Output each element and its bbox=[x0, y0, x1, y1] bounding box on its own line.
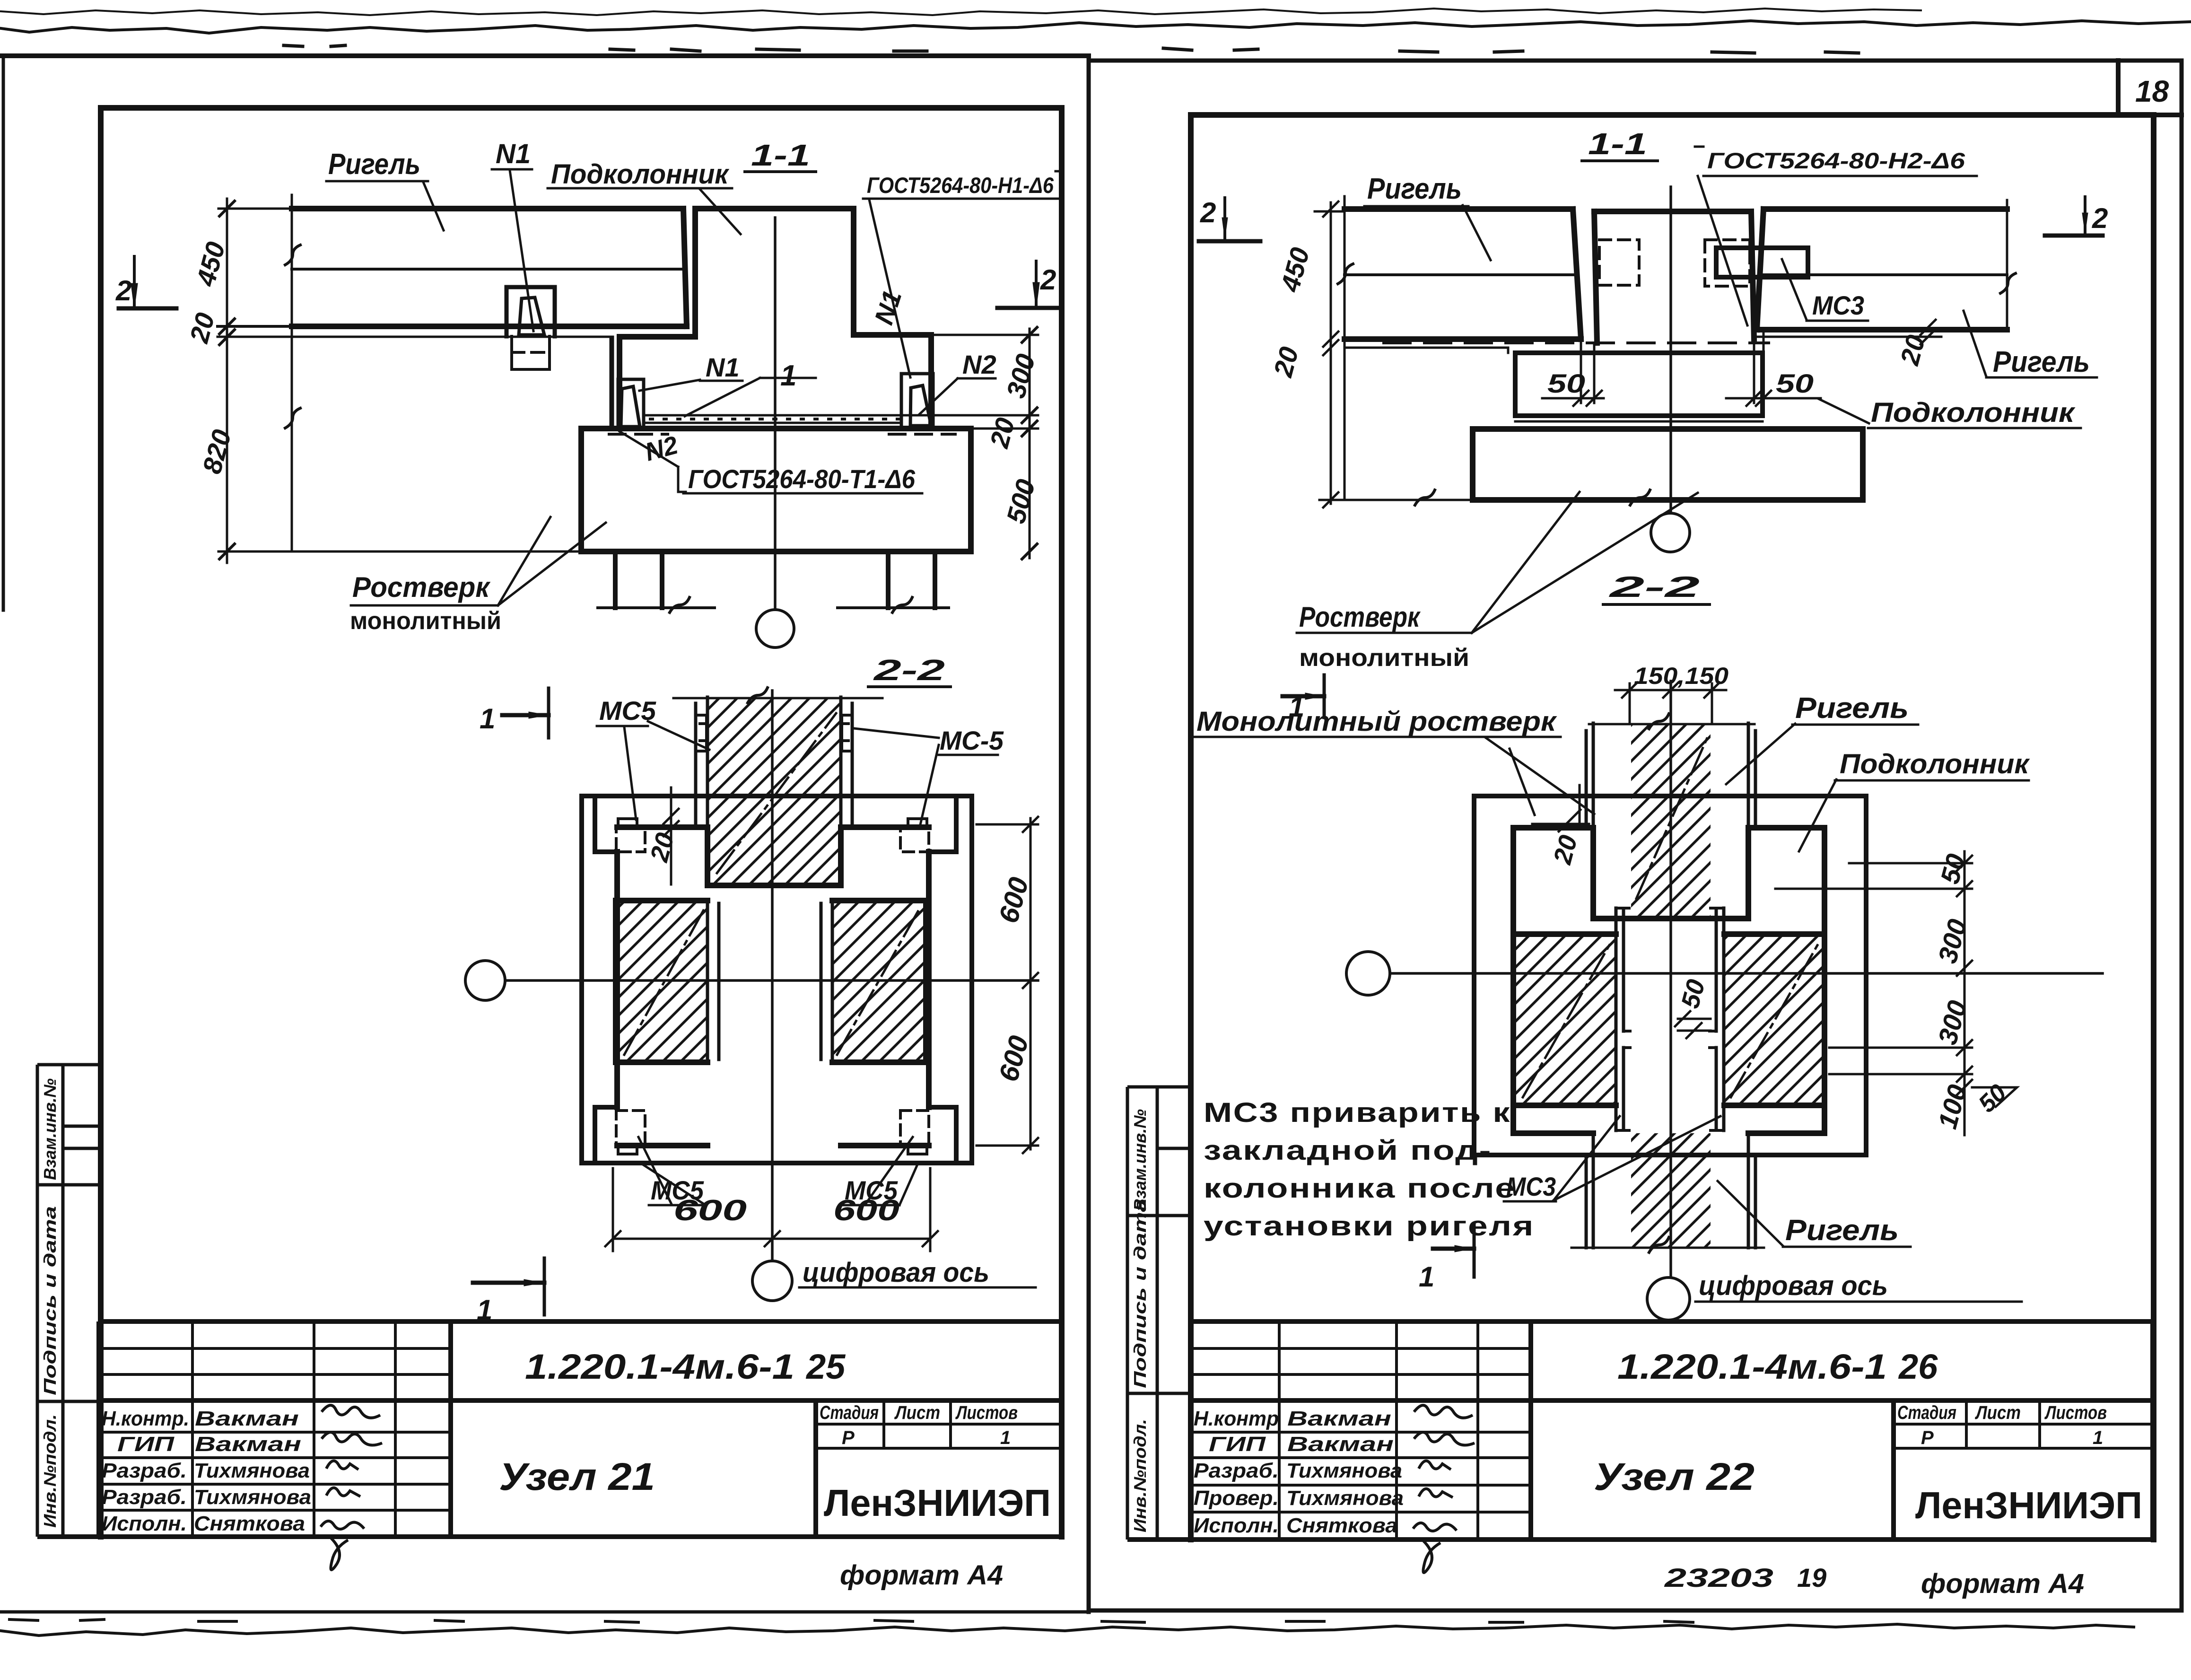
hatch top band bbox=[707, 697, 841, 884]
left girder right sheet bbox=[1344, 209, 1581, 339]
svg-text:Подпись и дата: Подпись и дата bbox=[40, 1206, 60, 1395]
svg-text:1.220.1-4м.6-1: 1.220.1-4м.6-1 bbox=[1617, 1347, 1887, 1386]
left title block names bbox=[102, 1407, 311, 1535]
left sheet outer border top bbox=[2, 53, 1089, 58]
svg-text:Вакман: Вакман bbox=[1287, 1433, 1394, 1456]
left girder break cut bbox=[1344, 196, 1346, 500]
svg-text:Вакман: Вакман bbox=[1287, 1407, 1391, 1430]
svg-text:ГИП: ГИП bbox=[1209, 1433, 1266, 1456]
mortar line under pedestal box bbox=[1515, 420, 1763, 423]
gap 50 left dim line bbox=[1542, 391, 1604, 406]
embed plate N2 right bbox=[901, 374, 933, 428]
left pile baseline bbox=[598, 606, 715, 609]
label lines right sheet upper bbox=[1582, 159, 1658, 162]
left sheet paper bottom edge bbox=[0, 1610, 1089, 1614]
axis circle left right-plan bbox=[1346, 952, 1390, 995]
svg-text:1.220.1-4м.6-1: 1.220.1-4м.6-1 bbox=[525, 1347, 794, 1386]
right 20 dim bbox=[1756, 320, 1941, 344]
svg-text:ГОСТ5264-80-Н1-Δ6: ГОСТ5264-80-Н1-Δ6 bbox=[867, 173, 1054, 198]
svg-text:Лист: Лист bbox=[1974, 1402, 2021, 1423]
dash-dot diagonal middle right bbox=[837, 908, 920, 1055]
svg-text:Стадия: Стадия bbox=[1897, 1402, 1956, 1423]
svg-text:Ростверк: Ростверк bbox=[1299, 601, 1421, 633]
right dim chain bbox=[1957, 851, 1972, 1135]
svg-text:Вакман: Вакман bbox=[195, 1433, 301, 1456]
bottom dim line 600/600 bbox=[605, 1168, 938, 1251]
right dim chain extensions bbox=[904, 335, 1038, 429]
left sheet outer border left bbox=[2, 56, 5, 610]
svg-text:1: 1 bbox=[477, 1294, 492, 1326]
left dim line 450/20 bbox=[1323, 201, 1338, 507]
svg-text:монолитный: монолитный bbox=[350, 607, 501, 635]
middle left plate hooks bbox=[1616, 908, 1630, 1130]
svg-text:Листов: Листов bbox=[2044, 1402, 2107, 1423]
bottom extension thin line bbox=[218, 551, 581, 553]
weld trapezoid on N2 embed bbox=[910, 385, 931, 426]
dash-dot diagonal middle right bbox=[1731, 944, 1818, 1097]
svg-text:2-2: 2-2 bbox=[1609, 571, 1700, 604]
girder (rigel) section left bbox=[292, 209, 687, 326]
right girder mid line bbox=[1763, 273, 2007, 276]
leader from 50 to podkolonnik label bbox=[1818, 399, 1869, 423]
break squiggle bottom band bbox=[1649, 1237, 1669, 1252]
svg-text:N1: N1 bbox=[706, 352, 740, 382]
svg-text:Сняткова: Сняткова bbox=[194, 1512, 305, 1535]
band side embed right bbox=[842, 715, 851, 751]
embed plate N1 lower box with dashed line bbox=[512, 336, 550, 369]
50 slanted leader bbox=[1972, 1087, 2017, 1107]
joint gap verticals at girder end bbox=[611, 337, 613, 429]
mortar bed strip lines bbox=[644, 415, 901, 423]
plan axis vertical bbox=[771, 691, 774, 1260]
left signatures bbox=[321, 1405, 382, 1570]
svg-text:1: 1 bbox=[1000, 1427, 1011, 1448]
girder left break cut line bbox=[291, 195, 293, 551]
svg-text:Ригель: Ригель bbox=[328, 148, 420, 181]
dash-dot diagonal in top band bbox=[717, 713, 836, 873]
svg-text:150,150: 150,150 bbox=[1634, 663, 1728, 689]
svg-text:Тихмянова: Тихмянова bbox=[194, 1459, 310, 1482]
joint line under girder bbox=[218, 336, 613, 338]
recess box in inner square bbox=[1593, 828, 1748, 919]
break squiggle right girder bbox=[2000, 273, 2016, 293]
torn paper bottom edge bbox=[1, 1624, 2134, 1636]
svg-text:1-1: 1-1 bbox=[1588, 127, 1647, 161]
right girder break cut bbox=[2006, 200, 2008, 331]
left pile bbox=[615, 551, 662, 608]
break squiggle top band right plan bbox=[1649, 714, 1669, 729]
svg-text:Узел 22: Узел 22 bbox=[1594, 1455, 1755, 1498]
break squiggles on bottom line bbox=[1415, 490, 1435, 505]
gap 50 right dim line bbox=[1726, 391, 1821, 406]
svg-text:25: 25 bbox=[805, 1347, 846, 1386]
section mark 2 right (right sheet) bbox=[2045, 197, 2103, 236]
svg-text:Ригель: Ригель bbox=[1785, 1214, 1899, 1247]
svg-text:Р: Р bbox=[842, 1427, 855, 1448]
gap 50 right: extension verticals bbox=[1754, 331, 1763, 403]
svg-text:1: 1 bbox=[780, 359, 796, 392]
dashed hidden joint line bbox=[1384, 341, 1769, 344]
bottom band break line bbox=[1571, 1247, 1764, 1249]
title table thin horizontals bbox=[99, 1348, 1061, 1510]
pedestal stub between girders bbox=[1594, 211, 1754, 343]
pedestal box section bbox=[1515, 353, 1763, 416]
dashed embed box left in stub bbox=[1599, 240, 1639, 285]
break squiggle top band bbox=[748, 688, 768, 703]
rotated side boxes right sheet bbox=[1127, 1087, 1191, 1540]
dim ticks left chain bbox=[219, 201, 235, 559]
svg-text:ЛенЗНИИЭП: ЛенЗНИИЭП bbox=[1915, 1484, 2142, 1526]
svg-text:Разраб.: Разраб. bbox=[1194, 1459, 1279, 1482]
dim 20 top-left inner square bbox=[1532, 785, 1589, 831]
svg-text:Подколонник: Подколонник bbox=[1840, 749, 2030, 779]
svg-text:Исполн.: Исполн. bbox=[1194, 1514, 1279, 1537]
right signatures bbox=[1413, 1405, 1475, 1573]
gap 50 left: extension verticals bbox=[1581, 339, 1594, 403]
svg-text:Взам.инв.№: Взам.инв.№ bbox=[40, 1078, 60, 1180]
pedestal (podkolonnik) section outline bbox=[620, 209, 931, 429]
dim 150,150 bbox=[1615, 682, 1726, 723]
svg-text:N2: N2 bbox=[962, 350, 996, 379]
outer square right plan bbox=[1474, 796, 1866, 1155]
right sheet outer border bbox=[1089, 61, 2182, 1610]
svg-text:установки ригеля: установки ригеля bbox=[1204, 1211, 1535, 1242]
hatch bottom column bbox=[1631, 1133, 1711, 1248]
right pile baseline bbox=[838, 606, 949, 609]
svg-text:2: 2 bbox=[115, 275, 131, 306]
corner step bottom-right bbox=[929, 1107, 956, 1163]
MC5 tab bottom-left bbox=[618, 1146, 637, 1154]
rotated side boxes left sheet bbox=[37, 1065, 101, 1537]
weld mark trapezoid in girder embed bbox=[519, 297, 544, 335]
svg-text:1: 1 bbox=[2093, 1427, 2103, 1448]
svg-text:Подколонник: Подколонник bbox=[551, 159, 730, 190]
break squiggle lower on cut line bbox=[285, 408, 300, 428]
sheet separator line bbox=[1087, 56, 1091, 1612]
welding note text bbox=[1204, 1097, 1535, 1242]
torn paper top edge bbox=[1, 21, 2191, 33]
svg-text:закладной под-: закладной под- bbox=[1204, 1135, 1492, 1166]
plan axis horizontal right sheet bbox=[1390, 972, 2103, 975]
svg-text:Лист: Лист bbox=[894, 1402, 940, 1423]
weld trapezoid on ledge embed bbox=[621, 386, 640, 427]
hatch middle left block bbox=[1514, 934, 1616, 1105]
axis circle bbox=[756, 610, 794, 647]
svg-text:МС5: МС5 bbox=[599, 696, 656, 726]
svg-text:23203: 23203 bbox=[1664, 1563, 1773, 1592]
mortar bed stipple bbox=[650, 418, 899, 420]
middle right block outline bbox=[1724, 934, 1824, 1105]
svg-text:50: 50 bbox=[1776, 368, 1814, 398]
MC5 label leaders bbox=[597, 721, 709, 820]
plan axis vertical right sheet bbox=[1669, 681, 1672, 1277]
svg-text:Тихмянова: Тихмянова bbox=[1286, 1459, 1402, 1482]
svg-text:Ригель: Ригель bbox=[1367, 173, 1462, 205]
svg-text:19: 19 bbox=[1797, 1563, 1826, 1592]
svg-text:1: 1 bbox=[1289, 691, 1304, 723]
tsifrovaya os underline bbox=[799, 1286, 1036, 1289]
svg-text:Исполн.: Исполн. bbox=[102, 1512, 187, 1535]
outer square pile cap plan bbox=[582, 796, 972, 1163]
top band break line bbox=[1589, 723, 1755, 726]
right sheet inner frame bbox=[1191, 115, 2154, 1540]
band side embed left bbox=[697, 715, 707, 751]
title table thin verticals bbox=[192, 1321, 1061, 1537]
svg-text:600: 600 bbox=[833, 1194, 899, 1227]
top band double edges bbox=[696, 697, 852, 827]
svg-text:Н.контр: Н.контр bbox=[1194, 1407, 1279, 1430]
hatch middle right block bbox=[832, 901, 926, 1062]
label underlines and leaders upper drawing bbox=[326, 181, 444, 230]
pile cap (rostverk) body bbox=[581, 429, 971, 551]
svg-text:50: 50 bbox=[1547, 368, 1585, 398]
middle left plate strip bbox=[707, 901, 719, 1062]
right title block stadia row bbox=[1897, 1402, 2107, 1448]
svg-text:Узел 21: Узел 21 bbox=[499, 1455, 655, 1498]
svg-text:МС3 приварить к: МС3 приварить к bbox=[1204, 1097, 1511, 1128]
top band bottom edge bbox=[707, 883, 841, 888]
svg-text:цифровая ось: цифровая ось bbox=[1699, 1270, 1888, 1301]
MC5 embed dashed box top-left bbox=[616, 827, 645, 852]
section mark 1 top bbox=[502, 688, 549, 738]
inner square pedestal plan bbox=[617, 827, 929, 1146]
svg-text:Подпись и дата: Подпись и дата bbox=[1130, 1199, 1150, 1388]
pile break squiggle right bbox=[892, 597, 912, 612]
right title block names bbox=[1194, 1407, 1404, 1537]
svg-text:600: 600 bbox=[673, 1194, 747, 1227]
svg-text:2-2: 2-2 bbox=[873, 654, 945, 687]
svg-text:ЛенЗНИИЭП: ЛенЗНИИЭП bbox=[824, 1482, 1051, 1524]
joint thin line under left girder bbox=[1344, 348, 1508, 353]
hatch middle right block bbox=[1724, 934, 1824, 1105]
section mark 1 bottom right sheet bbox=[1433, 1224, 1474, 1277]
corner step top-left bbox=[595, 796, 617, 852]
left title block stadia row bbox=[820, 1402, 1018, 1448]
top band walls in recess bbox=[707, 827, 841, 885]
embed plate N1 on ledge bbox=[618, 379, 644, 429]
svg-text:Разраб.: Разраб. bbox=[102, 1486, 187, 1509]
left sheet inner frame bbox=[101, 108, 1062, 1537]
svg-text:формат А4: формат А4 bbox=[1921, 1568, 2084, 1599]
bottom band edges bbox=[1586, 1133, 1755, 1248]
MC5 embed dashed box bottom-left bbox=[616, 1111, 645, 1146]
middle left plate bbox=[1616, 908, 1624, 1130]
svg-text:Сняткова: Сняткова bbox=[1286, 1514, 1397, 1537]
svg-text:МС-5: МС-5 bbox=[940, 726, 1004, 755]
right pile bbox=[888, 551, 935, 608]
right dim extensions bbox=[1775, 863, 1972, 1074]
svg-text:МС3: МС3 bbox=[1812, 290, 1864, 320]
svg-text:Р: Р bbox=[1921, 1427, 1934, 1448]
dash-dot diagonal middle left bbox=[1523, 944, 1610, 1097]
MC5 tab top-left bbox=[618, 819, 637, 827]
section mark 2 left bbox=[119, 256, 176, 308]
right dim ticks bbox=[1022, 327, 1037, 559]
dashed line under ledge embed bbox=[609, 433, 668, 436]
centerline right sheet upper bbox=[1669, 187, 1672, 513]
svg-text:2: 2 bbox=[1040, 264, 1056, 296]
svg-text:Взам.инв.№: Взам.инв.№ bbox=[1130, 1109, 1150, 1211]
svg-text:Тихмянова: Тихмянова bbox=[1286, 1487, 1404, 1510]
dim 20 at top-left corner bbox=[663, 787, 679, 884]
page number box 18 bbox=[2118, 61, 2182, 115]
axis circle left bbox=[465, 961, 505, 1000]
dash-dot diagonal middle left bbox=[624, 908, 705, 1055]
svg-text:Инв.№подл.: Инв.№подл. bbox=[40, 1414, 60, 1528]
svg-text:Разраб.: Разраб. bbox=[102, 1459, 187, 1482]
dashed line under N2 embed bbox=[889, 433, 955, 436]
bottom extension thin bbox=[1319, 499, 1473, 501]
centerline of column axis bbox=[774, 218, 777, 610]
hatch middle left block bbox=[616, 901, 707, 1062]
break squiggle left girder bbox=[1338, 264, 1353, 284]
embed plate N1 in girder bbox=[506, 287, 555, 336]
left girder slanted end bbox=[1573, 209, 1581, 339]
top band edges bbox=[1586, 723, 1755, 828]
RIGHT TITLE BLOCK bbox=[1127, 1087, 2153, 1540]
svg-text:26: 26 bbox=[1898, 1347, 1938, 1386]
svg-text:ГИП: ГИП bbox=[117, 1433, 175, 1456]
svg-text:ГОСТ5264-80-Н2-Δ6: ГОСТ5264-80-Н2-Δ6 bbox=[1707, 148, 1965, 173]
MC5 embed dashed box top-right bbox=[900, 827, 929, 852]
labels leaders right plan bbox=[1194, 737, 1594, 815]
svg-text:колонника после: колонника после bbox=[1204, 1173, 1516, 1204]
top extension for left dim bbox=[1315, 210, 1344, 213]
middle right plate hooks bbox=[1710, 908, 1724, 1130]
middle right block outline bbox=[832, 901, 926, 1062]
break squiggle on girder cut bbox=[285, 245, 300, 265]
middle right plate strip bbox=[821, 901, 832, 1062]
middle right plate bbox=[1716, 908, 1724, 1130]
section mark 1 bottom bbox=[473, 1258, 544, 1315]
top band break line bbox=[673, 697, 882, 700]
pile cap bottom bbox=[1473, 497, 1863, 503]
svg-text:Н.контр.: Н.контр. bbox=[102, 1407, 189, 1430]
plan axis horizontal bbox=[505, 979, 1038, 982]
title table outer and thick lines bbox=[37, 1321, 1061, 1537]
right girder right sheet bbox=[1757, 209, 2007, 330]
svg-text:формат А4: формат А4 bbox=[840, 1560, 1003, 1591]
svg-text:монолитный: монолитный bbox=[1299, 644, 1469, 672]
MC5 tab top-right bbox=[908, 819, 927, 827]
right rotated box labels bbox=[1130, 1109, 1150, 1532]
svg-text:Вакман: Вакман bbox=[195, 1407, 299, 1430]
right girder slanted end bbox=[1757, 209, 1763, 330]
axis circle right sheet upper bbox=[1651, 513, 1690, 552]
LEFT TITLE BLOCK bbox=[37, 1065, 1061, 1537]
svg-text:1: 1 bbox=[1419, 1261, 1434, 1293]
axis circle bottom right-plan bbox=[1647, 1277, 1690, 1320]
right dim extensions bbox=[977, 824, 1038, 1146]
svg-text:Инв.№подл.: Инв.№подл. bbox=[1130, 1419, 1150, 1532]
svg-text:2: 2 bbox=[1200, 197, 1216, 228]
svg-text:Ригель: Ригель bbox=[1795, 692, 1909, 725]
middle left block outline bbox=[616, 901, 707, 1062]
svg-text:Ростверк: Ростверк bbox=[352, 571, 491, 603]
svg-text:Ригель: Ригель bbox=[1993, 346, 2090, 378]
svg-text:цифровая ось: цифровая ось bbox=[803, 1257, 989, 1288]
girder mid line bbox=[292, 268, 685, 271]
middle left block outline bbox=[1514, 934, 1616, 1105]
corner step top-right bbox=[929, 796, 956, 852]
section mark 1 top right sheet bbox=[1283, 675, 1324, 717]
girder top extension line bbox=[218, 208, 292, 210]
girder slanted right end bbox=[683, 209, 687, 326]
svg-text:Тихмянова: Тихмянова bbox=[194, 1486, 311, 1509]
inner square right plan bbox=[1513, 828, 1824, 1133]
MC5 embed dashed box bottom-right bbox=[900, 1111, 929, 1146]
right dim line bbox=[1029, 329, 1031, 558]
dashed embed box right in stub bbox=[1705, 240, 1750, 286]
left rotated box labels bbox=[40, 1078, 60, 1528]
left girder mid line bbox=[1344, 273, 1577, 276]
axis circle bottom bbox=[752, 1261, 792, 1301]
svg-text:Провер.: Провер. bbox=[1194, 1487, 1279, 1510]
svg-text:1: 1 bbox=[480, 703, 495, 735]
dash-dot diagonal top column bbox=[1636, 738, 1707, 899]
svg-text:Монолитный ростверк: Монолитный ростверк bbox=[1196, 706, 1557, 737]
central 50 dim small bbox=[1675, 1011, 1711, 1038]
hatch top column bbox=[1631, 723, 1711, 919]
MC3 plate across joint bbox=[1716, 248, 1808, 277]
dim line 450/20/820 bbox=[226, 199, 228, 563]
svg-text:1-1: 1-1 bbox=[751, 138, 810, 172]
right dim line 600/600 bbox=[1023, 817, 1038, 1153]
pile break squiggle left bbox=[670, 597, 690, 612]
section mark 2 left (right sheet) bbox=[1199, 198, 1260, 241]
svg-text:Стадия: Стадия bbox=[820, 1402, 879, 1423]
svg-text:2: 2 bbox=[2092, 202, 2108, 234]
corner step bottom-left bbox=[595, 1107, 617, 1163]
pile cap bottom thick line bbox=[581, 549, 971, 554]
section mark 2 right bbox=[997, 261, 1058, 308]
pile cap right sheet bbox=[1473, 429, 1863, 500]
svg-text:ГОСТ5264-80-Т1-Δ6: ГОСТ5264-80-Т1-Δ6 bbox=[688, 464, 916, 494]
svg-text:Листов: Листов bbox=[955, 1402, 1018, 1423]
svg-text:N1: N1 bbox=[496, 139, 531, 169]
MC5 tab bottom-right bbox=[908, 1146, 927, 1154]
svg-text:Подколонник: Подколонник bbox=[1871, 397, 2076, 428]
svg-text:18: 18 bbox=[2135, 74, 2169, 108]
